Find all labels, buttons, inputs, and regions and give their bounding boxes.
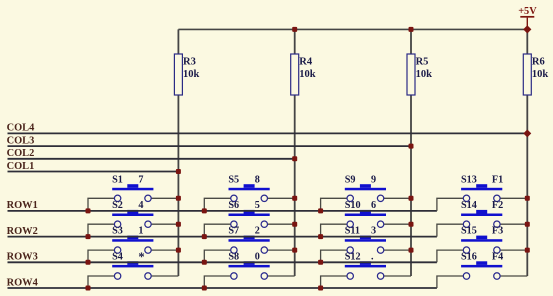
wire S5 left terminal to ROW1 — [204, 198, 234, 211]
wire net COL4 — [8, 132, 528, 134]
wire column 2 vertical (R4 bottom to switches) — [294, 95, 296, 276]
switch S13 designator and key legend — [461, 174, 503, 185]
svg-text:F3: F3 — [492, 226, 503, 237]
wire S16 left terminal to ROW4 — [437, 276, 467, 288]
switch S8 designator and key legend — [228, 251, 259, 262]
wire S9 left terminal to ROW1 — [321, 198, 351, 211]
switch S5 designator and key legend — [228, 174, 259, 185]
wire +5V top rail — [178, 28, 527, 30]
switch S12 terminals — [347, 273, 384, 279]
wire net ROW1 — [8, 210, 437, 212]
switch S1 actuator bar — [112, 184, 153, 190]
switch S2 terminals — [114, 221, 151, 227]
junction column 2 drop on ROW4 — [202, 286, 207, 291]
switch S10 designator and key legend — [345, 200, 376, 211]
wire S7 right terminal to column 2 — [264, 249, 294, 251]
switch S15 actuator bar — [461, 236, 502, 242]
svg-text:10k: 10k — [532, 69, 549, 80]
junction column 2 drop on ROW3 — [202, 260, 207, 265]
junction S6 right link on column 2 vertical — [292, 222, 297, 227]
wire column 4 vertical (R6 bottom to switches) — [526, 95, 528, 276]
junction S11 right link on column 3 vertical — [409, 248, 414, 253]
switch S6 terminals — [231, 221, 268, 227]
switch S16 terminals — [463, 273, 500, 279]
wire S11 left terminal to ROW3 — [321, 250, 351, 262]
junction column 3 drop on ROW1 — [318, 208, 323, 213]
svg-text:S3: S3 — [112, 226, 123, 237]
junction column 3 drop on ROW2 — [318, 234, 323, 239]
junction COL3 to column vertical — [409, 144, 414, 149]
resistor R3 10k — [174, 54, 199, 95]
wire net COL2 — [8, 158, 295, 160]
wire S3 left terminal to ROW3 — [88, 250, 118, 262]
junction rail/R5 — [409, 27, 414, 32]
svg-text:S10: S10 — [345, 200, 361, 211]
wire S5 right terminal to column 2 — [264, 197, 294, 199]
switch S5 actuator bar — [229, 184, 270, 190]
junction COL4 to column vertical — [523, 129, 531, 137]
junction column 1 drop on ROW3 — [86, 260, 91, 265]
wire S16 right terminal to column 4 — [497, 275, 527, 277]
junction S1 right link on column 1 vertical — [176, 196, 181, 201]
svg-text:R3: R3 — [183, 57, 196, 68]
switch S8 terminals — [231, 273, 268, 279]
svg-text:ROW1: ROW1 — [7, 200, 38, 211]
svg-text:S1: S1 — [112, 174, 123, 185]
junction column 2 drop on ROW1 — [202, 208, 207, 213]
wire S1 left terminal to ROW1 — [88, 198, 118, 211]
switch S14 actuator bar — [461, 210, 502, 216]
switch S13 actuator bar — [461, 184, 502, 190]
switch S14 designator and key legend — [461, 200, 503, 211]
wire S13 left terminal to ROW1 — [437, 198, 467, 211]
svg-text:S8: S8 — [228, 251, 239, 262]
wire S12 left terminal to ROW4 — [321, 276, 351, 288]
wire S12 right terminal to column 3 — [381, 275, 411, 277]
switch S9 actuator bar — [345, 184, 386, 190]
svg-text:COL3: COL3 — [7, 135, 35, 146]
wire S3 right terminal to column 1 — [148, 249, 178, 251]
svg-text:10k: 10k — [416, 69, 433, 80]
svg-text:S9: S9 — [345, 174, 356, 185]
svg-text:COL1: COL1 — [7, 161, 35, 172]
svg-text:1: 1 — [138, 226, 143, 237]
wire S8 right terminal to column 2 — [264, 275, 294, 277]
switch S7 terminals — [231, 247, 268, 253]
wire R6 top lead — [526, 29, 528, 54]
svg-text:F1: F1 — [492, 174, 503, 185]
wire S9 right terminal to column 3 — [381, 197, 411, 199]
switch S2 actuator bar — [112, 210, 153, 216]
svg-text:R5: R5 — [416, 57, 429, 68]
svg-text:S2: S2 — [112, 200, 123, 211]
switch S11 actuator bar — [345, 236, 386, 242]
switch S4 designator and key legend — [112, 250, 145, 264]
switch S11 designator and key legend — [345, 226, 376, 237]
switch S16 actuator bar — [461, 261, 502, 267]
junction column 3 drop on ROW3 — [318, 260, 323, 265]
junction column 1 drop on ROW4 — [86, 286, 91, 291]
switch S14 terminals — [463, 221, 500, 227]
switch S5 terminals — [231, 195, 268, 201]
svg-text:0: 0 — [255, 251, 260, 262]
wire net ROW4 — [8, 287, 437, 289]
junction S15 right link on column 4 vertical — [525, 248, 530, 253]
svg-text:ROW3: ROW3 — [7, 252, 38, 263]
junction S13 right link on column 4 vertical — [525, 196, 530, 201]
wire R3 top lead — [177, 29, 179, 54]
wire S4 right terminal to column 1 — [148, 275, 178, 277]
wire S2 left terminal to ROW2 — [88, 224, 118, 236]
svg-text:S4: S4 — [112, 251, 123, 262]
junction column 2 drop on ROW2 — [202, 234, 207, 239]
switch S3 designator and key legend — [112, 226, 143, 237]
junction S5 right link on column 2 vertical — [292, 196, 297, 201]
junction column 1 drop on ROW2 — [86, 234, 91, 239]
wire net COL1 — [8, 171, 179, 173]
switch S8 actuator bar — [229, 261, 270, 267]
switch S7 actuator bar — [229, 236, 270, 242]
wire S14 left terminal to ROW2 — [437, 224, 467, 236]
junction column 3 drop on ROW4 — [318, 286, 323, 291]
switch S12 designator and key legend — [345, 251, 374, 262]
svg-text:8: 8 — [255, 174, 260, 185]
junction rail/+5V/R6 — [523, 25, 531, 33]
svg-text:S11: S11 — [345, 226, 360, 237]
junction S10 right link on column 3 vertical — [409, 222, 414, 227]
wire R5 top lead — [410, 29, 412, 54]
wire S15 right terminal to column 4 — [497, 249, 527, 251]
switch S11 terminals — [347, 247, 384, 253]
svg-text:ROW4: ROW4 — [7, 277, 38, 288]
switch S15 designator and key legend — [461, 226, 503, 237]
switch S4 terminals — [114, 273, 151, 279]
switch S3 actuator bar — [112, 236, 153, 242]
junction column 1 drop on ROW1 — [86, 208, 91, 213]
wire S11 right terminal to column 3 — [381, 249, 411, 251]
wire S6 left terminal to ROW2 — [204, 224, 234, 236]
wire S14 right terminal to column 4 — [497, 223, 527, 225]
switch S10 terminals — [347, 221, 384, 227]
svg-text:2: 2 — [255, 226, 260, 237]
switch S9 designator and key legend — [345, 174, 376, 185]
switch S16 designator and key legend — [461, 251, 503, 262]
wire S10 right terminal to column 3 — [381, 223, 411, 225]
svg-text:10k: 10k — [183, 69, 200, 80]
svg-text:S6: S6 — [228, 200, 239, 211]
svg-text:S16: S16 — [461, 251, 477, 262]
wire column 3 vertical (R5 bottom to switches) — [410, 95, 412, 276]
wire S10 left terminal to ROW2 — [321, 224, 351, 236]
svg-text:10k: 10k — [299, 69, 316, 80]
switch S2 designator and key legend — [112, 200, 143, 211]
switch S3 terminals — [114, 247, 151, 253]
wire S7 left terminal to ROW3 — [204, 250, 234, 262]
switch S15 terminals — [463, 247, 500, 253]
svg-text:S14: S14 — [461, 200, 477, 211]
junction S9 right link on column 3 vertical — [409, 196, 414, 201]
svg-text:COL4: COL4 — [7, 123, 35, 134]
switch S4 actuator bar — [112, 261, 153, 267]
wire S15 left terminal to ROW3 — [437, 250, 467, 262]
svg-text:S7: S7 — [228, 226, 239, 237]
wire S6 right terminal to column 2 — [264, 223, 294, 225]
svg-text:R6: R6 — [532, 57, 545, 68]
svg-text:S12: S12 — [345, 251, 361, 262]
switch S12 actuator bar — [345, 261, 386, 267]
svg-text:ROW2: ROW2 — [7, 226, 38, 237]
junction S7 right link on column 2 vertical — [292, 248, 297, 253]
junction S2 right link on column 1 vertical — [176, 222, 181, 227]
wire S2 right terminal to column 1 — [148, 223, 178, 225]
switch S7 designator and key legend — [228, 226, 259, 237]
svg-text:S15: S15 — [461, 226, 477, 237]
svg-text:3: 3 — [371, 226, 376, 237]
svg-text:5: 5 — [255, 200, 260, 211]
switch S6 actuator bar — [229, 210, 270, 216]
junction S14 right link on column 4 vertical — [525, 222, 530, 227]
wire column 1 vertical (R3 bottom to switches) — [177, 95, 179, 276]
svg-text:*: * — [138, 250, 144, 264]
svg-text:9: 9 — [371, 174, 376, 185]
wire S8 left terminal to ROW4 — [204, 276, 234, 288]
junction S3 right link on column 1 vertical — [176, 248, 181, 253]
svg-text:7: 7 — [138, 174, 143, 185]
svg-text:R4: R4 — [299, 57, 313, 68]
junction COL1 to column vertical — [176, 169, 181, 174]
switch S9 terminals — [347, 195, 384, 201]
junction COL2 to column vertical — [292, 156, 297, 161]
resistor R4 10k — [291, 54, 316, 95]
svg-text:6: 6 — [371, 200, 376, 211]
resistor R6 10k — [523, 54, 548, 95]
svg-text:COL2: COL2 — [7, 148, 35, 159]
wire S13 right terminal to column 4 — [497, 197, 527, 199]
wire R4 top lead — [294, 29, 296, 54]
switch S6 designator and key legend — [228, 200, 259, 211]
wire S1 right terminal to column 1 — [148, 197, 178, 199]
svg-text:S5: S5 — [228, 174, 239, 185]
svg-text:4: 4 — [138, 200, 143, 211]
switch S13 terminals — [463, 195, 500, 201]
junction rail/R4 — [292, 27, 297, 32]
wire net ROW3 — [8, 261, 437, 263]
wire S4 left terminal to ROW4 — [88, 276, 118, 288]
switch S1 designator and key legend — [112, 174, 143, 185]
resistor R5 10k — [407, 54, 432, 95]
svg-text:+5V: +5V — [518, 6, 537, 17]
wire net COL3 — [8, 145, 412, 147]
power +5V — [518, 6, 537, 29]
switch S10 actuator bar — [345, 210, 386, 216]
wire net ROW2 — [8, 236, 437, 238]
svg-text:F2: F2 — [492, 200, 503, 211]
svg-text:F4: F4 — [492, 251, 503, 262]
svg-text:S13: S13 — [461, 174, 477, 185]
switch S1 terminals — [114, 195, 151, 201]
